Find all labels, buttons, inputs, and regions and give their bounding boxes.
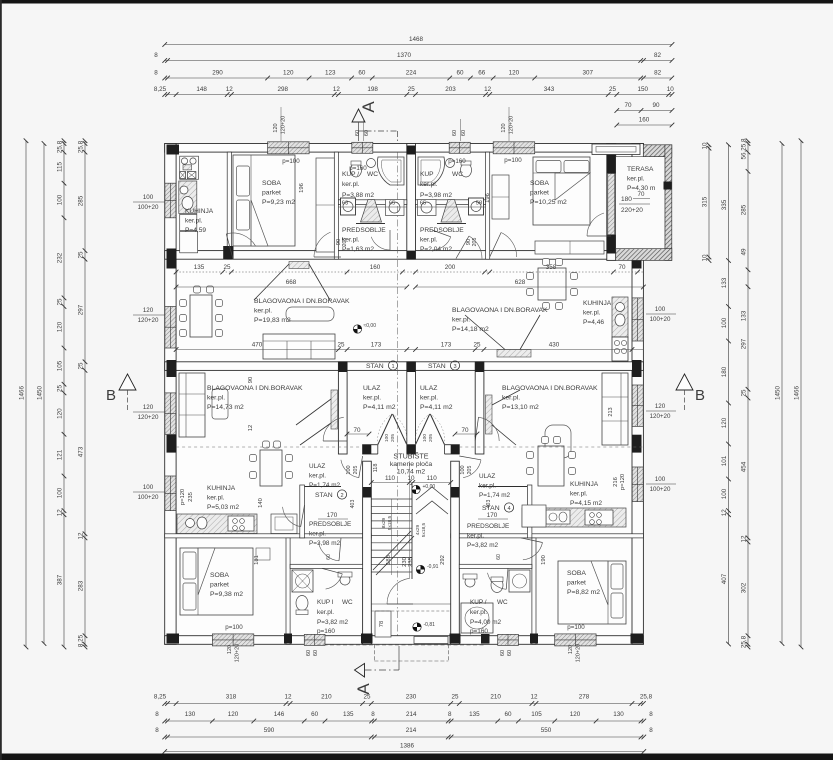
bath bottom-left shower [292,570,313,592]
svg-text:25: 25 [78,251,85,259]
svg-text:WC: WC [497,599,508,606]
interior wall vertical bath-right x=532 [532,538,536,644]
section line A jog top [366,130,398,132]
svg-text:210: 210 [321,694,332,701]
door ulaz-left to living lower [323,417,344,441]
tv cabinet upper-left on wall [289,262,309,269]
svg-text:120: 120 [143,404,154,411]
bath bottom-left wc [296,596,308,611]
svg-text:1450: 1450 [37,386,44,401]
svg-text:B: B [106,387,116,404]
svg-text:100: 100 [721,317,728,328]
svg-text:60: 60 [456,70,464,77]
svg-text:60: 60 [364,130,370,136]
svg-text:STAN: STAN [315,492,333,499]
block stair west wall top [363,487,372,498]
svg-text:230: 230 [406,694,417,701]
svg-text:60: 60 [311,711,319,718]
dimension line left col 3 (window segments) [63,141,65,647]
svg-text:121: 121 [57,449,64,460]
svg-text:120: 120 [273,123,279,132]
svg-text:KUHINJA: KUHINJA [570,481,599,488]
svg-text:403: 403 [486,500,492,509]
svg-text:214: 214 [406,727,417,734]
svg-text:205: 205 [342,238,348,247]
block right wall pier y=250 [632,249,642,269]
svg-text:12: 12 [78,532,85,540]
fixtures row right: boiler cone [441,200,462,223]
interior wall horizontal y=534 partition right [451,534,644,538]
kitchen top-left counter with sink [179,181,197,214]
dining table upper-left [190,295,212,337]
window bottom wall kup-left 60 [304,634,325,645]
interior dim line y=272 [176,271,643,273]
svg-text:parket: parket [567,580,586,587]
svg-text:120: 120 [227,645,233,654]
block mid wall left end [167,360,177,377]
svg-text:8,25: 8,25 [78,634,85,647]
exterior wall bottom [165,636,644,645]
svg-text:214: 214 [406,711,417,718]
svg-text:60: 60 [496,554,502,560]
svg-text:12: 12 [248,425,254,431]
dimension line bottom row 1 [165,703,644,705]
svg-text:65: 65 [389,201,395,207]
svg-text:120+20: 120+20 [281,116,287,135]
block left wall pier y=435 [167,435,177,453]
corner block bottom-left [167,634,180,644]
bed soba top-left [233,155,295,246]
svg-text:101: 101 [721,455,728,466]
wall stub under right boiler [437,223,466,225]
svg-text:p=100: p=100 [567,624,585,631]
svg-text:60: 60 [452,130,458,136]
interior wall horizontal y=250 (below top rooms) [165,251,644,260]
svg-text:49: 49 [741,248,748,256]
svg-text:P=13,10 m2: P=13,10 m2 [502,404,539,411]
stair closet under [375,611,391,637]
interior wall vertical predsoblje-right x=528 [527,485,532,538]
svg-text:170: 170 [487,512,498,519]
svg-text:115: 115 [57,161,64,172]
exterior wall right [632,144,643,645]
svg-text:1370: 1370 [397,52,412,59]
svg-text:82: 82 [654,52,662,59]
svg-text:8x29: 8x29 [381,517,387,528]
svg-text:TERASA: TERASA [627,166,654,173]
svg-text:P=14,73 m2: P=14,73 m2 [207,404,244,411]
svg-text:70: 70 [461,427,469,434]
terrace hatched wall top [643,145,671,157]
svg-text:1466: 1466 [19,386,26,401]
bath bottom-right tub [461,603,493,633]
svg-text:130: 130 [185,711,196,718]
interior wall horizontal predsoblje-left top y=486 [305,486,342,488]
svg-text:120+20: 120+20 [138,414,159,421]
windows bottom wall soba-left 120 [212,634,253,646]
svg-text:WC: WC [342,599,353,606]
svg-text:216: 216 [613,477,619,487]
svg-text:70: 70 [353,427,361,434]
svg-text:ker.pl.: ker.pl. [467,533,484,540]
svg-text:≈0,00: ≈0,00 [364,323,377,329]
svg-text:P=3,98 m2: P=3,98 m2 [420,192,452,199]
dimension line right col 4 (1450) [781,144,783,644]
svg-text:205: 205 [467,466,473,475]
svg-text:135: 135 [469,711,480,718]
svg-text:100+20: 100+20 [138,494,159,501]
svg-text:12: 12 [333,86,341,93]
svg-text:235: 235 [408,557,414,567]
fixtures row left bath: washing machine [341,198,356,215]
svg-text:120: 120 [655,403,666,410]
block top wall at kitchen/soba junction [223,246,233,259]
svg-text:ULAZ: ULAZ [363,385,380,392]
coffee table upper-left living [286,307,334,321]
svg-text:120: 120 [568,645,574,654]
svg-text:25: 25 [337,342,345,349]
building interior background [165,144,644,645]
svg-text:P=4,11 m2: P=4,11 m2 [420,404,453,411]
svg-text:298: 298 [278,86,289,93]
level marker stair mid -0.91 [416,565,424,573]
svg-text:628: 628 [515,279,526,286]
svg-text:1466: 1466 [794,386,801,401]
svg-text:78: 78 [379,621,385,627]
svg-text:SOBA: SOBA [262,180,281,187]
wall stub under left boiler [356,223,385,225]
stair bottom landing lines [371,603,450,605]
svg-text:KUP /: KUP / [470,599,487,606]
svg-text:8: 8 [154,70,158,77]
window right wall kitchen-low 100 [632,467,643,502]
interior wall bath divider right y=200 [416,200,486,205]
svg-text:BLAGOVAONA I DN.BORAVAK: BLAGOVAONA I DN.BORAVAK [207,385,303,392]
door kup-right top [432,237,451,250]
armchair lower-left [212,389,228,419]
svg-text:140: 140 [258,498,264,508]
terrace interior [616,157,665,249]
svg-text:KUP /: KUP / [342,171,359,178]
svg-text:120: 120 [283,70,294,77]
svg-text:-0,91: -0,91 [427,564,439,570]
svg-text:12: 12 [226,86,234,93]
sofa upper-left living [263,334,335,359]
dimension line bottom row 4 (1386) [165,751,644,753]
leader lines tv lower-right [492,390,520,405]
window bottom wall kup-right 60 [498,634,519,645]
dimension line top row 4 (wall segments) [165,94,672,96]
leader lines to tv upper-right [465,315,505,350]
svg-text:1386: 1386 [400,743,415,750]
dashed line kitchen-left area [176,446,362,448]
svg-text:p=100: p=100 [282,158,300,165]
svg-text:P=3,98 m2: P=3,98 m2 [309,540,341,547]
door soba-left from living [226,233,255,246]
interior wall vertical ulaz-right east x=475 [475,362,484,454]
scan border top bar [0,0,833,4]
window top wall soba-right p=100 [493,142,535,154]
stair upper flight chevrons [416,487,448,500]
stair treads flight [371,498,412,500]
svg-text:235: 235 [188,492,194,502]
svg-text:8: 8 [649,727,653,734]
svg-text:ULAZ: ULAZ [309,463,325,470]
svg-text:454: 454 [741,461,748,472]
svg-text:232: 232 [57,252,64,263]
dining table upper-right [538,268,566,300]
svg-text:STAN: STAN [428,363,446,370]
door predsoblje-left to living [314,232,331,257]
bed soba bottom-left [180,548,253,615]
svg-text:12: 12 [284,694,292,701]
svg-text:60: 60 [355,130,361,136]
svg-text:100: 100 [721,488,728,499]
svg-text:100: 100 [655,306,666,313]
svg-text:290: 290 [212,70,223,77]
window left wall w1 100 [165,183,176,218]
level marker stair bottom [413,623,421,631]
svg-text:12: 12 [484,86,492,93]
svg-text:148: 148 [196,86,207,93]
svg-text:ker.pl.: ker.pl. [309,531,326,538]
svg-text:SOBA: SOBA [567,570,586,577]
svg-text:3: 3 [453,364,456,370]
dimension line right col 3 [747,141,749,647]
svg-text:A: A [359,101,378,113]
dimension line left col 4 (wall segments) [84,141,86,647]
svg-text:ker.pl.: ker.pl. [452,317,470,324]
svg-text:P=8,82 m2: P=8,82 m2 [567,589,600,596]
window right wall kitchen-up 100 [632,298,643,341]
svg-text:P=9,38 m2: P=9,38 m2 [210,591,243,598]
section marker A top [352,109,365,122]
svg-text:110: 110 [427,475,438,482]
window top wall kup-right 60 [449,142,470,153]
door kitchen-left lower [283,507,301,527]
bath top-right wc [461,163,472,177]
svg-text:105: 105 [57,360,64,371]
svg-text:P=4,00 m2: P=4,00 m2 [470,619,502,626]
bath top-left tub quarter [377,157,404,185]
bath bottom-right wc [491,578,503,593]
dashed line kitchen-right area [459,446,643,448]
bath top-right tub quarter [418,157,445,185]
interior wall vertical stair west x=363 [363,461,372,644]
svg-text:parket: parket [530,190,549,197]
svg-text:297: 297 [78,304,85,315]
svg-text:58: 58 [476,201,482,207]
svg-text:224: 224 [406,70,417,77]
window top wall soba-left p=100 [268,142,310,154]
kitchen right upper fridge [630,296,632,298]
svg-text:WC: WC [367,171,378,178]
svg-text:120+20: 120+20 [650,413,671,420]
entrance porch dashes [373,644,375,661]
level marker stair top +0.00 [412,485,420,493]
svg-text:KUHINJA: KUHINJA [583,300,612,307]
porch dashed line [317,644,485,646]
svg-text:120+20: 120+20 [138,317,159,324]
svg-text:292: 292 [440,555,446,565]
svg-text:180: 180 [721,366,728,377]
svg-text:PREDSOBLJE: PREDSOBLJE [420,227,464,234]
interior wall horizontal stair top y=445 [363,445,460,454]
svg-text:BLAGOVAONA I DN.BORAVAK: BLAGOVAONA I DN.BORAVAK [254,298,350,305]
interior wall vertical kup/soba right x=486 [486,152,490,259]
svg-text:P=1,74 m2: P=1,74 m2 [309,482,341,489]
svg-text:1468: 1468 [409,36,424,43]
svg-text:BLAGOVAONA I DN.BORAVAK: BLAGOVAONA I DN.BORAVAK [452,307,548,314]
svg-text:P=4,46: P=4,46 [583,319,604,326]
svg-text:8: 8 [371,711,375,718]
sofa lower-right on right wall [602,373,628,445]
svg-text:parket: parket [210,582,229,589]
svg-text:P=9,23 m2: P=9,23 m2 [262,199,295,206]
svg-text:205: 205 [428,434,434,442]
svg-text:ker.pl.: ker.pl. [583,310,601,317]
svg-text:120: 120 [721,417,728,428]
svg-text:ker.pl.: ker.pl. [420,181,438,188]
block top-right soba/terrace [607,146,616,174]
svg-text:343: 343 [544,86,555,93]
interior wall vertical stair east x=451 [451,461,460,644]
svg-text:25: 25 [609,86,617,93]
tv lower-left on ulaz wall [331,390,338,429]
bath top-left sink [367,159,376,168]
block mid wall right end [632,360,642,377]
svg-text:parket: parket [262,190,281,197]
svg-text:WC: WC [452,171,463,178]
svg-text:p=120: p=120 [180,489,186,505]
svg-text:ker.pl.: ker.pl. [420,395,438,402]
svg-text:196: 196 [485,193,491,203]
door kup-left top [371,237,390,250]
svg-text:8,25: 8,25 [154,86,167,93]
svg-text:133: 133 [741,310,748,321]
kitchen lower-left counter [177,514,257,534]
svg-text:430: 430 [549,342,560,349]
svg-text:668: 668 [286,279,297,286]
kitchen top-left lower cabinet [180,214,197,230]
svg-text:100+20: 100+20 [138,204,159,211]
svg-text:25: 25 [57,385,64,393]
svg-text:60: 60 [507,650,513,656]
svg-text:203: 203 [445,86,456,93]
dimension line top row 3 (290..307) [165,77,672,79]
svg-text:100+20: 100+20 [650,486,671,493]
svg-text:100: 100 [143,484,154,491]
svg-text:297: 297 [741,338,748,349]
svg-text:135: 135 [343,711,354,718]
svg-text:173: 173 [441,342,452,349]
svg-text:118: 118 [373,464,379,473]
svg-text:SOBA: SOBA [210,572,229,579]
svg-text:70: 70 [638,191,645,198]
svg-text:ker.pl.: ker.pl. [309,473,326,480]
svg-text:70: 70 [624,102,632,109]
block ulaz-right east top [475,362,484,372]
interior wall horizontal bath-left top y=566 [290,564,363,568]
kitchen top-left table [180,231,198,252]
window top wall soba-right near terrace [592,144,640,155]
svg-text:10: 10 [667,86,675,93]
closet lower-right [522,505,546,527]
block bottom wall pier right [481,634,490,644]
bed soba bottom-right [558,561,626,624]
fixtures row right: sink unit [418,200,437,216]
svg-text:590: 590 [264,727,275,734]
svg-text:196: 196 [299,183,305,193]
svg-text:173: 173 [371,342,382,349]
svg-text:60: 60 [306,650,312,656]
svg-text:470: 470 [252,342,263,349]
svg-text:12: 12 [741,535,748,543]
block y250 central [407,251,416,260]
svg-text:KUHINJA: KUHINJA [207,485,236,492]
svg-text:56,25,8: 56,25,8 [741,138,748,160]
svg-text:120: 120 [57,321,64,332]
fixtures row left: boiler cone [361,200,382,223]
svg-text:100: 100 [57,487,64,498]
svg-text:8,25: 8,25 [154,694,167,701]
svg-text:P=10,25 m2: P=10,25 m2 [530,199,567,206]
svg-text:25,8: 25,8 [640,694,653,701]
svg-text:473: 473 [78,446,85,457]
svg-text:307: 307 [582,70,593,77]
svg-text:4: 4 [507,506,510,512]
svg-text:p=160: p=160 [317,628,335,635]
svg-text:550: 550 [541,727,552,734]
block right wall pier y=435 [632,435,642,453]
svg-text:25: 25 [451,694,459,701]
svg-text:190: 190 [541,555,547,565]
svg-text:146: 146 [274,711,285,718]
svg-text:120: 120 [570,711,581,718]
svg-text:ker.pl.: ker.pl. [627,176,645,183]
svg-text:60: 60 [358,70,366,77]
svg-text:180: 180 [621,196,632,203]
svg-text:185: 185 [386,555,392,565]
dimension line right col 2 [728,145,730,644]
svg-text:285: 285 [78,195,85,206]
svg-text:66: 66 [478,70,486,77]
svg-text:KUP I: KUP I [317,599,334,606]
door kup-left lower [326,574,343,589]
svg-text:123: 123 [325,70,336,77]
block ulaz-left west top [338,362,347,372]
svg-text:2: 2 [340,493,343,499]
svg-text:25: 25 [57,298,64,306]
kitchen stove right upper [612,337,628,361]
level marker living-left 0.00 [353,325,361,333]
svg-text:10: 10 [702,254,709,262]
interior wall horizontal bath-right top y=566 [459,564,532,568]
svg-text:SOBA: SOBA [530,180,549,187]
svg-text:ker.pl.: ker.pl. [470,609,487,616]
svg-text:4x29: 4x29 [415,524,421,535]
svg-text:100: 100 [655,476,666,483]
svg-text:8: 8 [649,711,653,718]
svg-text:210: 210 [490,694,501,701]
svg-text:ker.pl.: ker.pl. [570,491,588,498]
svg-text:ker.pl.: ker.pl. [207,395,225,402]
svg-text:8: 8 [448,711,452,718]
svg-text:5x18,5: 5x18,5 [421,522,427,537]
svg-text:60: 60 [313,650,319,656]
fixtures row right: washing machine [469,198,484,215]
fixtures row left: sink unit [386,200,405,216]
